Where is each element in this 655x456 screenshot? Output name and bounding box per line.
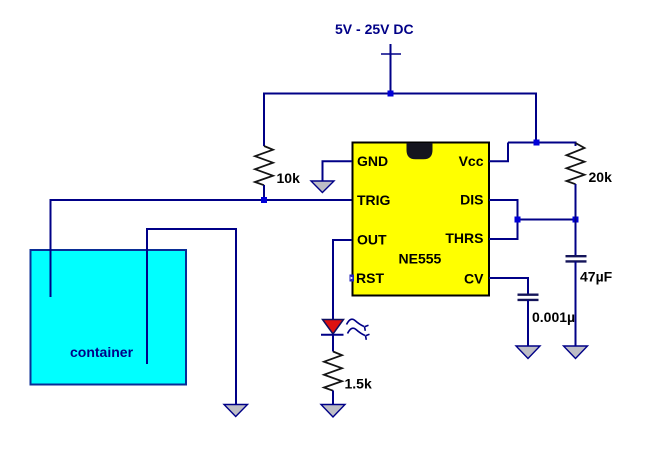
value label 47uF: [580, 269, 613, 285]
junction at 20k leg: [573, 217, 579, 223]
wire OUT stub down to LED: [333, 240, 352, 320]
junction Vcc rail: [534, 140, 540, 146]
wire LED to R3: [332, 334, 334, 352]
wire DIS-THRS to 20k net: [518, 219, 576, 221]
value label 0.001u: [532, 309, 575, 325]
svg-text:container: container: [70, 344, 134, 360]
junction TRIG/10k: [261, 197, 267, 203]
svg-text:1.5k: 1.5k: [345, 376, 372, 392]
value label 10k: [277, 170, 301, 186]
value label 1.5k: [345, 376, 372, 392]
power supply symbol: [381, 44, 401, 94]
pin label RST: [356, 270, 384, 286]
wire Vcc rail to 20k: [508, 143, 576, 147]
wire DIS stub: [489, 200, 518, 220]
pin label Vcc: [459, 153, 484, 169]
ground below probe2: [224, 405, 248, 417]
ground at GND pin: [311, 181, 334, 193]
wire probe2 right drop to ground: [235, 228, 237, 404]
node VCC label 5V - 25V DC: [335, 21, 414, 37]
wire GND stub: [323, 161, 353, 181]
svg-text:GND: GND: [357, 153, 388, 169]
svg-text:OUT: OUT: [357, 232, 387, 248]
wire C2 to ground: [575, 261, 577, 346]
ground below C1: [516, 346, 540, 359]
wire power rail left drop to 10k: [263, 93, 265, 147]
wire Vcc stub: [489, 143, 508, 162]
container box: [31, 250, 187, 385]
pin label THRS: [445, 230, 483, 246]
wire TRIG net horizontal: [50, 199, 353, 201]
svg-text:47µF: 47µF: [580, 269, 613, 285]
wire power rail right drop: [535, 93, 537, 144]
pin label GND: [357, 153, 388, 169]
wire CV stub: [489, 278, 528, 295]
wire probe1 drop inside container: [50, 199, 52, 297]
value label 20k: [589, 169, 613, 185]
wire C1 to ground: [527, 300, 529, 346]
ground below 1.5k: [321, 405, 345, 418]
LED light arrows: [347, 319, 370, 340]
junction at power symbol: [388, 91, 394, 97]
capacitor C2 47uF: [566, 256, 587, 261]
pin label TRIG: [357, 192, 391, 208]
pin label OUT: [357, 232, 387, 248]
svg-text:DIS: DIS: [460, 192, 483, 208]
wire THRS stub: [489, 220, 518, 240]
svg-text:CV: CV: [464, 271, 484, 287]
svg-text:20k: 20k: [589, 169, 613, 185]
pin label DIS: [460, 192, 483, 208]
svg-text:RST: RST: [356, 270, 384, 286]
ground below C2: [564, 346, 588, 359]
RST pin marker: [350, 275, 355, 282]
svg-text:0.001µ: 0.001µ: [532, 309, 575, 325]
wire 20k to C2: [575, 184, 577, 256]
LED D1: [321, 320, 344, 335]
part label NE555: [399, 251, 442, 267]
capacitor C1 0.001u: [518, 295, 539, 300]
IC U1 NE555 body: [353, 143, 490, 296]
wire power rail horizontal: [264, 93, 536, 95]
svg-text:THRS: THRS: [445, 230, 483, 246]
resistor R2 20k: [567, 143, 585, 184]
svg-text:NE555: NE555: [399, 251, 442, 267]
resistor R1 10k: [255, 146, 273, 200]
svg-text:10k: 10k: [277, 170, 301, 186]
pin label CV: [464, 271, 484, 287]
junction DIS/THRS: [515, 217, 521, 223]
svg-text:5V - 25V DC: 5V - 25V DC: [335, 21, 414, 37]
wire probe2 horizontal: [147, 228, 236, 230]
wire probe2 left drop into container: [146, 228, 148, 364]
resistor R3 1.5k: [324, 352, 342, 405]
svg-text:TRIG: TRIG: [357, 192, 391, 208]
svg-text:Vcc: Vcc: [459, 153, 484, 169]
container label: [70, 344, 134, 360]
